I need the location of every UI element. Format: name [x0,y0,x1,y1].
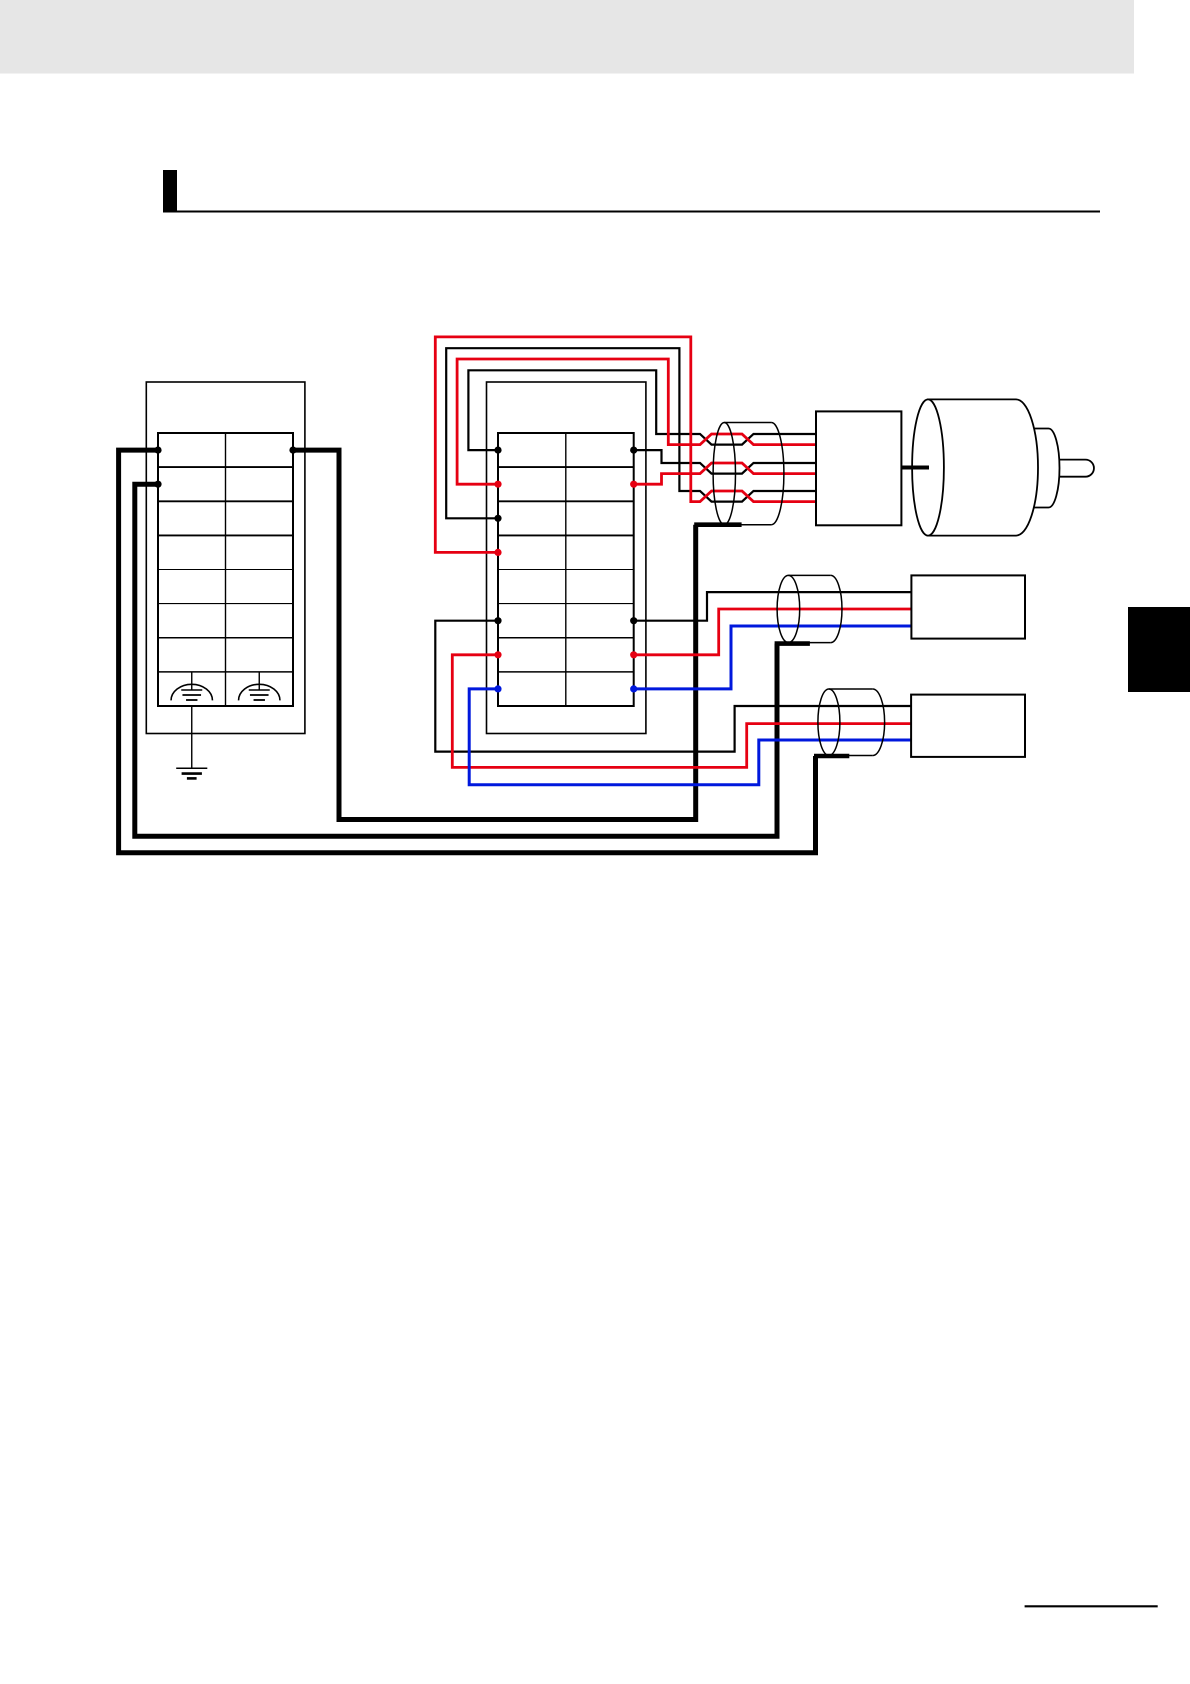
protective earth terminal symbol right cell [239,672,280,700]
servo driver terminal block outline [487,382,646,734]
motor connector stub [901,466,929,470]
wire: shield ground thick wire from left terminal row2 left to upper cable clamp [135,484,777,836]
servomotor [912,399,1094,535]
motor shaft [1058,460,1094,477]
motor connector box [816,411,901,525]
upper cable shield [777,575,842,642]
wire: blue row8-right to upper box [634,626,912,689]
section title rule [177,211,1100,213]
page edge tab [1128,607,1190,692]
motor body [928,399,1038,535]
wire: red jog row2-right to twisted pair2 red [634,463,816,484]
ground symbol [176,768,207,778]
servo driver terminal table grid [498,433,634,706]
motor end cap ellipse [912,399,944,535]
junction dots driver left column [494,447,501,454]
motor flange step [1031,429,1060,508]
header bar [0,0,1134,74]
wire: black row6-right to upper box [634,592,912,621]
wire: red loop row2-left to twisted pair1 red [457,359,816,484]
lower peripheral box [911,695,1025,757]
wire: black loop row1-left to twisted pair1 black [468,370,816,450]
lower cable shield [818,689,885,756]
wire: red row7-right to upper box [634,609,912,655]
wire: black jog row1-right to twisted pair2 black [634,450,816,474]
wire: black loop row3-left to twisted pair3 black [446,348,816,518]
wire: black loop row6-left to lower box [435,621,911,752]
upper peripheral box [911,575,1025,638]
wire: earth lead from terminal block [191,706,193,768]
protective earth terminal symbol left cell [171,672,212,700]
junction dots driver right column [630,447,637,454]
shield clamp on lower cable [814,754,849,759]
wire: shield ground thick wire from left terminal row1 right to motor cable clamp [293,450,696,819]
shield clamp on motor cable [694,522,741,527]
wire: shield ground thick wire from left terminal row1 left to lower cable clamp [119,450,816,853]
junction dots left terminal block [154,447,296,488]
footer rule [1025,1605,1158,1607]
wire: red loop row7-left to lower box [452,655,911,768]
left terminal block outline [146,382,305,734]
section title marker [163,170,177,213]
motor cable shield [713,423,784,525]
wire: red loop row4-left to twisted pair3 red [435,337,816,553]
left terminal block table grid [158,433,293,706]
wire: blue loop row8-left to lower box [469,689,911,785]
shield clamp on upper cable [775,641,810,646]
